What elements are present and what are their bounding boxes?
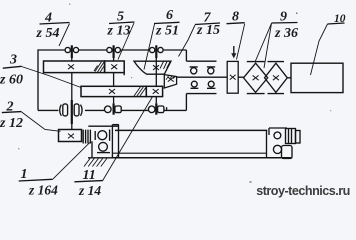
coupling on shaft I left flange: [63, 104, 68, 116]
label underline 1: [19, 179, 52, 181]
leader line 9 right: [264, 23, 272, 68]
leader line 2: [22, 112, 61, 131]
bearing B3 left ball: [150, 47, 155, 52]
svg-text:z 36: z 36: [274, 26, 298, 41]
diamond cap lines top: [247, 61, 284, 63]
coupling disc lower right: [208, 81, 214, 87]
mesh hatch z60/z14: [134, 87, 146, 96]
coupling on shaft I left paren: [60, 105, 62, 116]
housing top line: [186, 60, 216, 62]
label underline 7: [195, 23, 220, 25]
motor 10 body: [291, 63, 343, 92]
wheel bracket left: [94, 131, 96, 140]
coupling 9 diamond right: [265, 63, 288, 92]
ring gear z164 lower wheel: [99, 142, 108, 151]
drum right journal cap: [269, 128, 287, 135]
shaft III line: [155, 58, 157, 103]
label underline 4: [40, 23, 70, 25]
svg-text:9: 9: [280, 10, 287, 25]
brake 8 actuation arrow: [233, 46, 235, 54]
wheel bracket right: [109, 130, 111, 141]
svg-text:z 15: z 15: [196, 23, 220, 38]
bearing B1 left ball: [65, 47, 70, 52]
label underline 9: [272, 22, 298, 25]
gear z14 body: [146, 86, 162, 96]
ground hatch: [84, 159, 107, 167]
housing bottom line: [186, 93, 216, 95]
gear z60 x-mark: [109, 89, 115, 94]
shaft I coupling journal: [71, 100, 73, 124]
bearing B2 right ball: [115, 47, 120, 52]
svg-text:z 13: z 13: [107, 24, 131, 39]
coupling cap lines lower: [191, 87, 216, 89]
svg-text:10: 10: [334, 13, 346, 25]
label underline 3: [3, 66, 22, 68]
diamond left x-mark: [253, 75, 259, 80]
svg-text:8: 8: [232, 10, 239, 25]
coupling 9 diamond left: [244, 63, 268, 92]
wheel support post: [91, 141, 93, 157]
gear z54 x-mark: [68, 64, 74, 69]
mesh hatch z54/z13: [95, 62, 104, 73]
pinion z12 x-mark: [68, 134, 74, 139]
coupling cap lines upper: [190, 66, 216, 68]
leader line 11: [102, 97, 152, 181]
svg-text:z 14: z 14: [78, 183, 101, 198]
shaft I line: [71, 58, 73, 130]
coupling on shaft I right paren: [81, 105, 83, 116]
spline bars: [83, 130, 90, 144]
hatch stroke extra row1: [94, 66, 98, 72]
gear z54 body: [44, 61, 105, 73]
bearing B1 right ball: [73, 47, 78, 52]
drum right ribbed block: [286, 129, 296, 144]
pinion z12 body: [59, 130, 82, 142]
ground line: [88, 157, 112, 159]
svg-text:2: 2: [6, 100, 14, 115]
gear z13 edge tick: [123, 73, 125, 76]
svg-text:1: 1: [21, 167, 28, 182]
speck near label 9: [296, 13, 298, 15]
svg-text:stroy-technics.ru: stroy-technics.ru: [256, 184, 350, 198]
bearing B3 right ball: [158, 47, 163, 52]
shaft I top journal: [71, 45, 73, 58]
label underline 11: [74, 181, 102, 182]
svg-text:z 51: z 51: [155, 24, 179, 39]
svg-text:4: 4: [44, 11, 52, 26]
leader line 8: [237, 24, 245, 60]
shaft II line: [113, 58, 115, 103]
leader line 4: [59, 24, 70, 47]
ring gear z164 upper wheel: [98, 131, 107, 140]
bevel pinion z15 body: [164, 75, 176, 88]
drum right lower block: [282, 146, 293, 159]
bottom bearing shaft II block: [115, 106, 121, 113]
frame bottom rail: [38, 109, 186, 111]
leader line 3: [22, 67, 82, 88]
gear z13 body: [105, 61, 125, 73]
leader line 9 left: [255, 23, 272, 62]
bottom bearing shaft III block: [158, 106, 164, 113]
leader line 10: [311, 24, 328, 75]
drum right roller lower: [273, 145, 281, 153]
svg-text:z 54: z 54: [36, 26, 60, 41]
label underline 5: [109, 22, 135, 24]
leader line 1: [52, 141, 91, 180]
svg-text:z 164: z 164: [28, 183, 58, 198]
shaft III top journal: [155, 45, 157, 58]
speck above watermark: [250, 181, 252, 183]
frame left wall: [37, 49, 39, 110]
coupling disc upper left: [191, 68, 197, 74]
svg-text:3: 3: [9, 53, 17, 68]
bottom bearing shaft II ball: [105, 106, 112, 113]
shaft II bottom journal: [112, 103, 114, 114]
drum right wall: [266, 130, 268, 157]
bearing B2 left ball: [107, 47, 112, 52]
drum left cap: [112, 124, 118, 126]
coupling disc lower left: [191, 81, 197, 87]
svg-text:z 12: z 12: [0, 116, 23, 131]
svg-text:6: 6: [166, 8, 173, 23]
diamond cap lines bottom: [247, 93, 284, 95]
coupling on shaft I right flange: [74, 104, 79, 116]
label underline 6: [154, 22, 180, 23]
frame bearing stop tick: [166, 107, 168, 110]
bottom bearing shaft III ball: [148, 106, 155, 113]
drum top line: [115, 129, 267, 131]
brake 8 x-mark: [230, 75, 236, 80]
drum right roller upper: [274, 132, 281, 139]
bevel gear z51 x-mark: [153, 65, 159, 70]
ring gear bracket top line: [88, 125, 118, 127]
gear z13 x-mark: [111, 64, 117, 69]
gear z60 body: [81, 86, 146, 96]
bevel gear z51 body: [134, 61, 171, 74]
leader line 5: [118, 23, 134, 60]
drum bottom outer line: [112, 157, 292, 159]
drum left inner wall: [118, 125, 120, 158]
gear z14 x-mark: [153, 89, 159, 94]
leader line 7: [179, 25, 196, 57]
shaft III bottom journal: [155, 103, 157, 114]
bevel pinion z15 hatch: [166, 75, 176, 80]
svg-text:z 60: z 60: [0, 73, 23, 88]
wheel bottom cap: [97, 152, 110, 154]
frame top rail: [38, 49, 186, 51]
drum right end nub: [296, 131, 301, 144]
shaft II top journal: [112, 45, 114, 58]
drum left outer wall: [111, 125, 113, 158]
brake 8 body: [227, 61, 238, 93]
drive shaft to motor: [177, 76, 291, 79]
diamond right x-mark: [273, 75, 279, 80]
bevel pinion z15 x-mark: [168, 77, 174, 82]
leader line 6: [144, 24, 155, 70]
bevel gear z51 hatch: [160, 62, 170, 70]
drum bottom inner line: [112, 152, 267, 154]
svg-text:11: 11: [83, 168, 96, 183]
coupling disc upper right: [208, 68, 214, 74]
label underline 10: [328, 23, 345, 24]
label underline 8: [227, 23, 245, 24]
svg-text:5: 5: [117, 10, 124, 25]
frame right step upper: [185, 50, 187, 61]
frame right step lower: [185, 94, 187, 111]
label underline 2: [2, 112, 22, 113]
